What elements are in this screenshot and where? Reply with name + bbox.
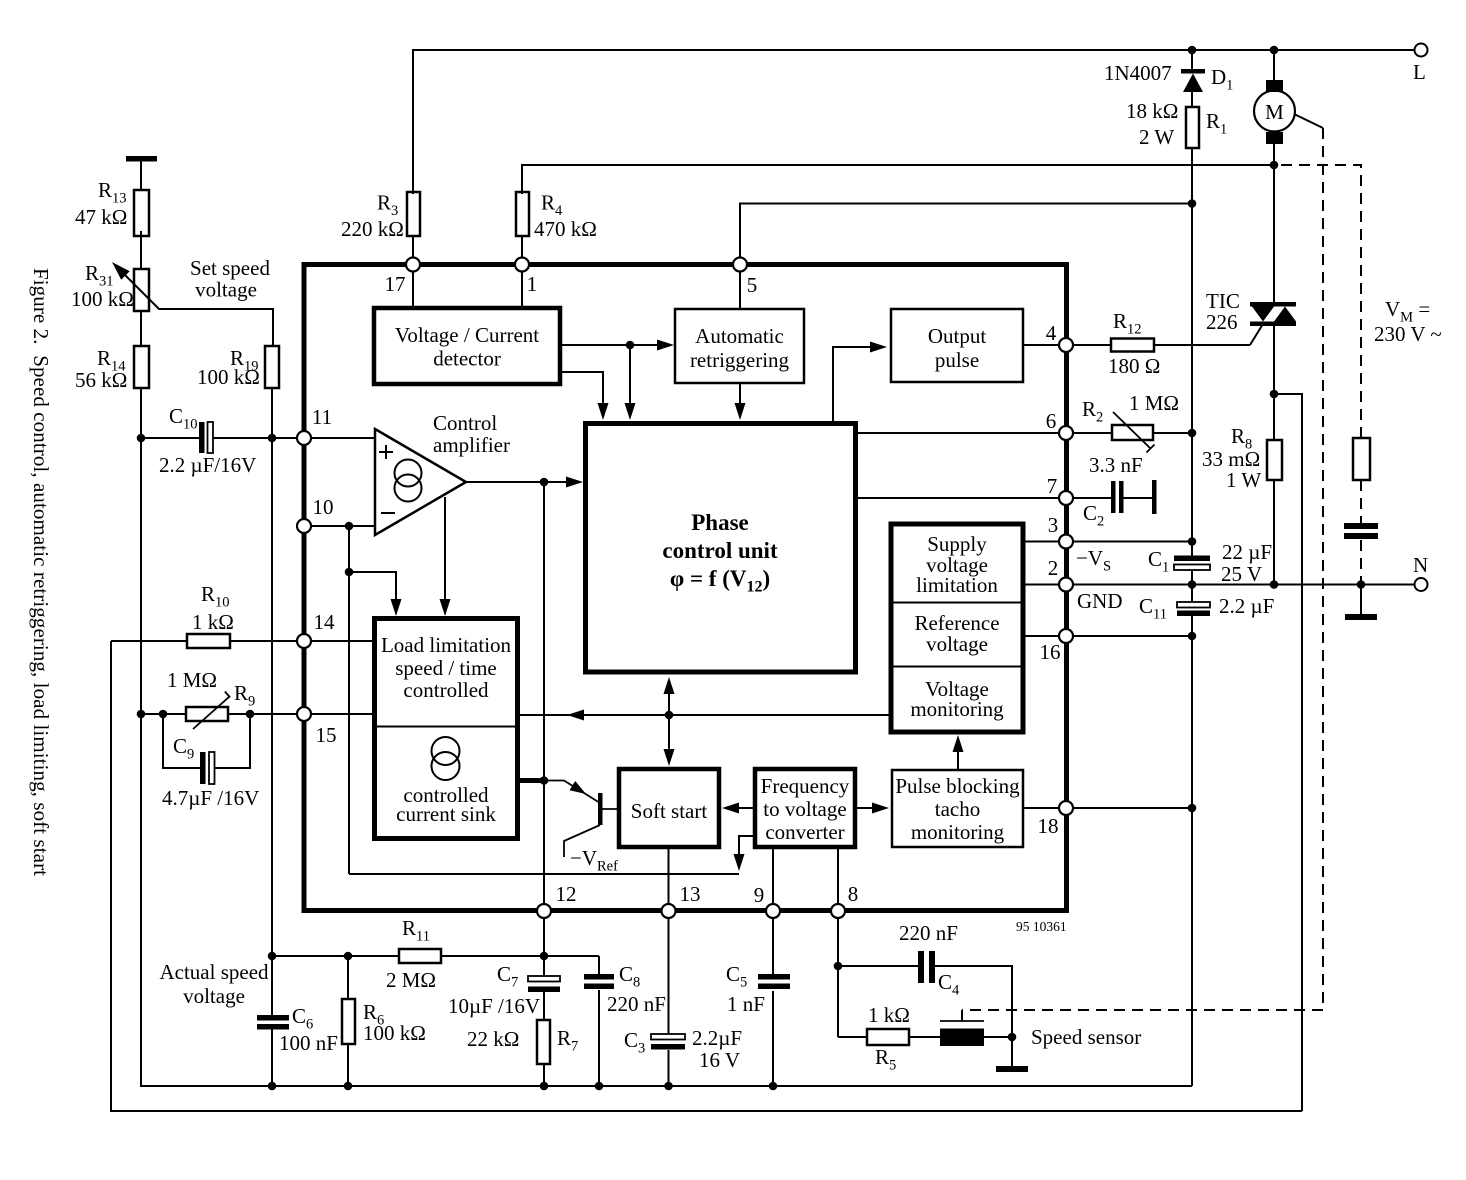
svg-text:Speed sensor: Speed sensor: [1031, 1025, 1141, 1049]
svg-text:6: 6: [1046, 409, 1057, 433]
junction: R19 / C10 / pin11: [268, 434, 277, 443]
svg-text:Figure 2. Speed control, auto: Figure 2. Speed control, automatic retri…: [29, 268, 53, 876]
pin 11: [297, 431, 311, 445]
svg-text:16 V: 16 V: [699, 1048, 740, 1072]
svg-text:Phase: Phase: [691, 510, 749, 535]
svg-text:converter: converter: [765, 820, 844, 844]
junction: motor bottom / triac: [1270, 161, 1279, 170]
ground bar below N rail: [1360, 585, 1362, 615]
block: pulse blocking tacho monitoring: [892, 770, 1023, 847]
wire: C6 branch: [271, 956, 273, 1015]
junction: soft start arrow / pin15 line: [665, 711, 674, 720]
block: output pulse: [891, 309, 1023, 382]
pin 13: [662, 904, 676, 918]
pin 3: [1059, 535, 1073, 549]
svg-text:470 kΩ: 470 kΩ: [534, 217, 597, 241]
wire: pin 18 tacho line: [1023, 807, 1059, 809]
svg-text:Control: Control: [433, 411, 497, 435]
op-amp: control amplifier: [375, 429, 466, 535]
pin 1: [515, 258, 529, 272]
wire: soft start bottom to pin 13: [668, 847, 670, 904]
wire: V/C detector to automatic retriggering: [560, 344, 658, 346]
junction: C9 right / R9: [246, 710, 255, 719]
svg-text:4.7µF /16V: 4.7µF /16V: [162, 786, 259, 810]
svg-text:2: 2: [1048, 556, 1059, 580]
terminal L: [1415, 44, 1428, 57]
wire: actual speed voltage vertical (R19/C10 to R11 line): [271, 438, 273, 956]
wire: phase unit to pin 7: [856, 497, 1059, 499]
svg-text:13: 13: [680, 882, 701, 906]
wire: freq converter to soft start arrow: [737, 807, 755, 809]
wire: C10 node to pin 11: [141, 437, 199, 439]
block: phase control unit: [586, 424, 856, 673]
trimmer R2: [1112, 425, 1153, 440]
wire: pin 2 GND stub: [1024, 584, 1059, 586]
wire: set speed divider chain: [140, 161, 142, 190]
resistor R3: [407, 192, 420, 236]
svg-text:22 µF: 22 µF: [1222, 540, 1272, 564]
wire: R4 bottom lead to pin 1: [521, 236, 523, 258]
resistor R4: [516, 192, 529, 236]
svg-text:1 W: 1 W: [1226, 468, 1261, 492]
resistor R7: [537, 1020, 550, 1064]
junction: C1 / N rail: [1188, 580, 1197, 589]
resistor R13: [134, 190, 149, 236]
pin 16: [1059, 629, 1073, 643]
diode D1 1N4007: [1181, 69, 1205, 74]
wire: pin 15 line through R9: [141, 713, 186, 715]
svg-text:detector: detector: [433, 347, 501, 371]
wire: freq-converter output into feedback line: [739, 836, 755, 856]
svg-text:10: 10: [313, 495, 334, 519]
svg-text:220 nF: 220 nF: [607, 992, 666, 1016]
pin 8: [831, 904, 845, 918]
svg-text:56 kΩ: 56 kΩ: [75, 368, 127, 392]
svg-text:10µF /16V: 10µF /16V: [448, 994, 540, 1018]
block: frequency to voltage converter: [755, 769, 855, 847]
svg-text:voltage: voltage: [926, 632, 988, 656]
svg-text:7: 7: [1047, 474, 1058, 498]
wire: motor shaft coupling (dashed): [1294, 114, 1323, 128]
capacitor C7: [528, 976, 560, 982]
wire: phase unit to soft start (double arrow): [668, 691, 670, 753]
svg-text:GND: GND: [1077, 589, 1123, 613]
junction: snubber / N rail: [1357, 580, 1366, 589]
wire: amplifier output down to pin 12: [543, 482, 545, 904]
svg-text:18 kΩ: 18 kΩ: [1126, 99, 1178, 123]
svg-text:current sink: current sink: [396, 802, 496, 826]
svg-text:220 nF: 220 nF: [899, 921, 958, 945]
resistor R8: [1267, 440, 1282, 480]
svg-text:15: 15: [316, 723, 337, 747]
terminal N: [1415, 578, 1428, 591]
block: automatic retriggering: [675, 309, 804, 383]
svg-text:M: M: [1265, 100, 1284, 124]
svg-text:25 V: 25 V: [1221, 562, 1262, 586]
resistor R12: [1111, 339, 1154, 352]
junction: pin10 line branch: [345, 522, 354, 531]
svg-text:1 nF: 1 nF: [727, 992, 765, 1016]
pin 9: [766, 904, 780, 918]
snubber resistor (dashed branch): [1353, 438, 1370, 480]
block: voltage/current detector: [374, 308, 560, 384]
pin 12: [537, 904, 551, 918]
wire: pin 3 line to C1: [1024, 541, 1059, 543]
svg-text:2.2 µF/16V: 2.2 µF/16V: [159, 453, 256, 477]
wire: freq converter to pin 9: [772, 847, 774, 904]
pin 14: [297, 634, 311, 648]
wire: output pulse to pin 4: [1023, 344, 1059, 346]
wire: pin 17 lead into detector: [412, 271, 414, 308]
svg-text:230 V ~: 230 V ~: [1374, 322, 1442, 346]
pin 10: [297, 519, 311, 533]
resistor R5: [867, 1029, 909, 1045]
junction: R6 / bus: [344, 1082, 353, 1091]
wire: C3 lead to bus: [668, 1050, 670, 1086]
capacitor C6: [257, 1015, 289, 1021]
pin 2: [1059, 578, 1073, 592]
wire: C8 branch: [598, 956, 600, 974]
triac TIC 226: [1250, 302, 1296, 307]
junction: R6 / R11 line: [344, 952, 353, 961]
svg-text:Pulse blocking: Pulse blocking: [895, 774, 1020, 798]
svg-text:14: 14: [314, 610, 336, 634]
pin 17: [406, 258, 420, 272]
arrow: monitoring to load limitation direction: [567, 710, 584, 721]
svg-text:control unit: control unit: [662, 538, 778, 563]
resistor R1: [1186, 107, 1199, 148]
wire: R11 line: [272, 955, 399, 957]
capacitor C4: [918, 951, 924, 983]
svg-text:100 nF: 100 nF: [279, 1031, 338, 1055]
junction: C9 left / R9: [159, 710, 168, 719]
junction: R2 / D1-R1 branch: [1188, 429, 1197, 438]
svg-text:monitoring: monitoring: [910, 697, 1004, 721]
capacitor C9: [200, 752, 206, 784]
capacitor C8: [584, 974, 614, 980]
svg-text:100 kΩ: 100 kΩ: [71, 287, 134, 311]
svg-text:2.2 µF: 2.2 µF: [1219, 594, 1274, 618]
capacitor C11 2.2uF: [1177, 602, 1210, 608]
wire: R3 bottom lead to pin 17: [412, 236, 414, 258]
capacitor C2 3.3nF: [1111, 481, 1116, 513]
svg-text:2 W: 2 W: [1139, 125, 1174, 149]
wire: divider lower leg down to bottom bus: [141, 438, 1192, 1086]
wire: freq converter to pulse blocking arrow: [855, 807, 872, 809]
wire: amplifier lower output to load limitation: [444, 497, 446, 600]
svg-text:Output: Output: [928, 324, 987, 348]
svg-text:17: 17: [385, 272, 406, 296]
pin 6: [1059, 426, 1073, 440]
svg-text:220 kΩ: 220 kΩ: [341, 217, 404, 241]
junction: C8 / bus: [595, 1082, 604, 1091]
junction: L rail / motor: [1270, 46, 1279, 55]
svg-text:3.3 nF: 3.3 nF: [1089, 453, 1143, 477]
svg-text:2 MΩ: 2 MΩ: [386, 968, 436, 992]
wire: V/C detector outputs into phase control unit: [629, 345, 631, 404]
resistor R11: [399, 949, 441, 963]
wire: mains L rail top: [413, 50, 1414, 194]
junction: R8 top sense: [1270, 390, 1279, 399]
junction: pin12 line / R11: [540, 952, 549, 961]
svg-text:4: 4: [1046, 321, 1057, 345]
svg-text:1: 1: [527, 272, 538, 296]
svg-text:Actual speed: Actual speed: [159, 960, 269, 984]
wire: automatic retriggering into phase control unit: [739, 383, 741, 404]
junction: C6 / bus: [268, 1082, 277, 1091]
wire: pin 15 line inside IC to voltage monitoring: [517, 714, 892, 716]
wire: R6 branch: [347, 956, 349, 999]
wire: pin 6 to R2 to D1/R1 branch: [1073, 432, 1112, 434]
wire: controlled current sink output (thick): [517, 778, 544, 783]
junction: R14 / C10: [137, 434, 146, 443]
junction: amplifier output / pin12 line: [540, 478, 549, 487]
wire: bottom outer rail (current sense return): [111, 641, 1302, 1111]
junction: pin18 line / -VS branch: [1188, 804, 1197, 813]
svg-text:amplifier: amplifier: [433, 433, 510, 457]
svg-text:limitation: limitation: [916, 573, 998, 597]
capacitor C10: [199, 422, 205, 453]
wire: D1-R1 branch down to C1 and GND rail: [1191, 50, 1193, 69]
svg-text:1 kΩ: 1 kΩ: [192, 610, 234, 634]
wire: motor to triac to R8 to N rail: [1273, 50, 1275, 80]
wire: control amplifier output to phase control unit: [466, 481, 566, 483]
wire: pin 16 reference line to C11: [1024, 635, 1059, 637]
wire: R19 bottom to C10 node: [271, 388, 273, 438]
wire: R4 top rail to motor branch: [522, 165, 1274, 194]
svg-text:22 kΩ: 22 kΩ: [467, 1027, 519, 1051]
junction: C5 / bus: [769, 1082, 778, 1091]
svg-text:voltage: voltage: [195, 278, 257, 302]
svg-text:11: 11: [312, 405, 332, 429]
capacitor C5: [758, 974, 790, 980]
wire: pin 9 to C5 to bus: [772, 918, 774, 974]
wire: N rail from pin 2 to terminal N: [1073, 584, 1414, 586]
potentiometer R31: [134, 269, 149, 311]
wire: phase unit to pin 6: [856, 432, 1059, 434]
svg-text:Frequency: Frequency: [761, 774, 850, 798]
svg-text:1 kΩ: 1 kΩ: [868, 1003, 910, 1027]
svg-text:Set speed: Set speed: [190, 256, 270, 280]
junction: R7 / bus: [540, 1082, 549, 1091]
svg-text:1 MΩ: 1 MΩ: [1129, 391, 1179, 415]
junction: triac-R8 / N rail: [1270, 580, 1279, 589]
svg-text:to voltage: to voltage: [763, 797, 846, 821]
current sink symbol (two circles): [432, 737, 460, 765]
svg-text:100 kΩ: 100 kΩ: [363, 1021, 426, 1045]
snubber capacitor: [1344, 523, 1378, 529]
junction: C11 / pin16 line: [1188, 632, 1197, 641]
pin 15: [297, 707, 311, 721]
wire: pulse blocking up to voltage monitoring arrow: [957, 750, 959, 769]
wire: snubber branch (dashed): [1281, 165, 1361, 438]
wire: sensor branch R5/C4: [837, 966, 839, 1037]
wire: sensor ground lead: [1011, 1037, 1013, 1066]
svg-text:2.2µF: 2.2µF: [692, 1026, 742, 1050]
potentiometer R9: [186, 707, 228, 721]
block: soft start: [619, 769, 719, 847]
svg-text:12: 12: [556, 882, 577, 906]
junction: pin 8 / C4 branch: [834, 962, 843, 971]
IC package outline: [304, 265, 1067, 911]
pin 18: [1059, 801, 1073, 815]
junction: divider leg / R9 line: [137, 710, 146, 719]
pin 7: [1059, 491, 1073, 505]
wire: -VS rail below GND down to bottom bus: [1191, 585, 1193, 602]
motor M: [1266, 80, 1283, 92]
svg-text:180 Ω: 180 Ω: [1108, 354, 1160, 378]
svg-text:controlled: controlled: [403, 678, 489, 702]
svg-text:9: 9: [754, 883, 765, 907]
svg-text:Automatic: Automatic: [695, 324, 784, 348]
svg-text:3: 3: [1048, 513, 1059, 537]
svg-text:monitoring: monitoring: [911, 820, 1005, 844]
block: supply voltage limitation / reference voltage / voltage monitoring: [891, 524, 1023, 732]
svg-text:5: 5: [747, 273, 758, 297]
svg-text:100 kΩ: 100 kΩ: [197, 365, 260, 389]
svg-text:L: L: [1413, 60, 1426, 84]
junction: L rail / D1: [1188, 46, 1197, 55]
pin 4: [1059, 338, 1073, 352]
wire: pin 8 down to sensor branch: [837, 918, 839, 966]
junction: feedback branch to load limitation: [345, 568, 354, 577]
svg-text:retriggering: retriggering: [690, 348, 790, 372]
resistor R19: [265, 346, 279, 388]
wire: phase unit to output pulse block: [833, 347, 870, 423]
junction: sensor output node: [1008, 1033, 1017, 1042]
svg-text:47 kΩ: 47 kΩ: [75, 205, 127, 229]
svg-text:Soft start: Soft start: [631, 799, 708, 823]
svg-text:pulse: pulse: [935, 348, 979, 372]
svg-text:95 10361: 95 10361: [1016, 919, 1067, 934]
svg-text:tacho: tacho: [935, 797, 980, 821]
svg-text:speed / time: speed / time: [395, 656, 496, 680]
wire: pin 5 lead into automatic retriggering: [739, 271, 741, 309]
svg-text:16: 16: [1040, 640, 1061, 664]
svg-text:Load limitation: Load limitation: [381, 633, 512, 657]
svg-text:N: N: [1413, 553, 1428, 577]
wire: pin 12 to C7/R7 chain: [543, 956, 545, 976]
junction: pin3 line / C1: [1188, 537, 1197, 546]
wire: freq converter to pin 8: [837, 847, 839, 904]
resistor R10: [187, 634, 230, 648]
junction: pin5 line / D1-R1: [1188, 199, 1197, 208]
resistor R6: [342, 999, 355, 1044]
svg-text:voltage: voltage: [183, 984, 245, 1008]
capacitor C1 22uF: [1174, 556, 1210, 562]
block: load limitation / controlled current sink: [375, 619, 518, 839]
wire: C9 loop: [163, 714, 200, 768]
wire: pin 4 gate drive through R12 to triac gate: [1073, 344, 1111, 346]
wire: branch to load limitation input: [349, 572, 396, 600]
svg-text:Voltage / Current: Voltage / Current: [395, 323, 539, 347]
wire: pin 1 lead into detector: [521, 271, 523, 308]
ground bar below speed sensor: [996, 1066, 1028, 1072]
svg-text:1 MΩ: 1 MΩ: [167, 668, 217, 692]
wire: R8 top sense wire to bottom rail: [1274, 394, 1302, 1111]
svg-text:226: 226: [1206, 310, 1238, 334]
pin 5: [733, 258, 747, 272]
wire: pin 5 to D1/R1 junction: [740, 204, 1192, 258]
speed sensor: [940, 1020, 984, 1022]
capacitor C3: [651, 1034, 685, 1040]
resistor R14: [134, 346, 149, 388]
supply bar -VS top left: [126, 156, 157, 162]
wire: R31 wiper to R19: [116, 266, 273, 346]
junction: detector out / retrigger: [626, 341, 635, 350]
svg-text:1N4007: 1N4007: [1104, 61, 1172, 85]
wire: pin 7 to C2: [1073, 497, 1111, 499]
wire: pin 14 line through R10: [111, 640, 187, 642]
wire: pin 10 feedback net: [311, 525, 375, 527]
junction: actual speed node / R11 line: [268, 952, 277, 961]
junction: current sink / pin12 line: [540, 776, 549, 785]
svg-text:18: 18: [1038, 814, 1059, 838]
svg-text:8: 8: [848, 882, 859, 906]
junction: C3 / bus: [664, 1082, 673, 1091]
transistor-style soft start control input: [544, 781, 600, 804]
